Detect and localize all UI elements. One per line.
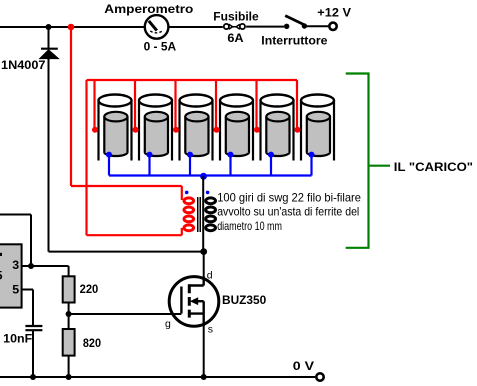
svg-text:Interruttore: Interruttore [261,33,327,47]
resistor R2 820 [63,329,75,356]
wire blue drop cell 3 [189,155,191,176]
svg-text:3: 3 [12,258,19,272]
cell 4 outer cylinder [220,95,253,161]
node blue cell 5 [268,152,274,158]
svg-text:820: 820 [83,336,101,350]
node red cell 4 [214,127,220,133]
wire red primary feed [71,27,182,200]
node source to rail [201,374,207,380]
transformer T1 core [198,197,200,232]
transformer T1 secondary loop 3 [206,216,216,222]
wire blue drop cell 1 [108,155,110,176]
wire R2 bottom to rail [68,356,70,377]
transformer T1 primary loop 2 [184,207,194,213]
cell 4 inner cylinder [226,112,249,156]
svg-text:1N4007: 1N4007 [1,58,46,72]
wire blue drop cell 2 [148,155,150,176]
svg-text:diametro 10 mm: diametro 10 mm [217,220,282,233]
node cap to rail [30,374,36,380]
svg-text:g: g [165,318,171,330]
switch S1 [284,16,307,29]
svg-text:BUZ350: BUZ350 [222,293,266,307]
node blue cell 1 [106,152,112,158]
wire secondary lead [202,176,204,252]
wire red primary return to cell bus [87,80,182,235]
transistor Q1 BUZ350 [169,277,219,327]
IC U1 555 body [0,244,22,307]
node red cell 2 [133,127,139,133]
node gate junction [66,311,72,317]
svg-text:0 - 5A: 0 - 5A [144,39,177,53]
node blue bus junction [200,173,207,180]
wire top rail left segment [0,26,145,28]
cell 5 outer cylinder [261,95,294,161]
transformer T1 secondary loop 4 [206,225,216,231]
wire cap bottom to rail [32,330,34,377]
wire pin3 net up and off left [0,215,31,267]
wire diode upper lead [48,27,50,48]
node red cell 6 [295,127,301,133]
svg-text:100 giri di swg 22 filo bi-fil: 100 giri di swg 22 filo bi-filare [217,191,361,204]
node diode tap on top rail [46,24,52,30]
wire blue drop cell 5 [270,155,272,176]
transformer T1 polarity dot secondary [206,191,210,195]
wire diode anode down [48,58,50,252]
svg-text:6A: 6A [227,31,243,45]
IC U1 label mark [0,253,2,256]
svg-text:d: d [207,270,213,282]
ammeter M1 [145,15,169,39]
node red cell 1 [92,127,98,133]
transformer T1 primary loop 1 [184,198,194,204]
cell 1 outer cylinder [99,95,132,161]
wire diode line to drain junction [49,251,204,253]
wire red drop cell 4 [215,80,217,130]
wire red drop cell 3 [174,80,176,130]
svg-text:IL "CARICO": IL "CARICO" [394,160,473,174]
wire R1 bottom to R2 [68,303,70,330]
transformer T1 primary loop 3 [184,216,194,222]
node blue cell 4 [228,152,234,158]
svg-text:+12 V: +12 V [317,6,351,20]
diode D1 1N4007 [40,49,59,59]
node blue cell 6 [309,152,315,158]
transformer T1 secondary loop 1 [206,198,216,204]
svg-text:5: 5 [0,268,3,282]
wire source to ground rail [203,325,205,377]
wire blue drop cell 4 [229,155,231,176]
node red tap on top rail [68,24,75,31]
transformer T1 secondary loop 2 [206,207,216,213]
wire gate [69,313,182,315]
svg-text:5: 5 [12,283,19,297]
svg-text:avvolto su un'asta di ferrite: avvolto su un'asta di ferrite del [217,206,359,219]
svg-text:0 V: 0 V [293,359,315,373]
transformer T1 primary loop 4 [184,225,194,231]
cell 1 inner cylinder [104,112,127,156]
cell 6 inner cylinder [307,112,330,156]
wire pin3 to R1 [31,266,69,276]
svg-text:220: 220 [80,282,99,296]
svg-text:10nF: 10nF [3,332,32,346]
cell 6 outer cylinder [301,95,334,161]
svg-text:Amperometro: Amperometro [104,2,193,16]
node blue cell 3 [187,152,193,158]
node pin3 junction [28,263,34,269]
wire switch to +12V terminal [307,25,329,27]
cell 3 inner cylinder [185,112,208,156]
node blue cell 2 [147,152,153,158]
node red cell 3 [173,127,179,133]
node drain junction [200,248,207,255]
cell 5 inner cylinder [266,112,289,156]
wire fuse to switch [246,26,284,28]
wire blue cell bottom bus [109,174,312,176]
terminal +12V [329,23,336,30]
transformer T1 polarity dot primary [185,191,189,195]
wire red drop cell 2 [134,80,136,130]
resistor R1 220 [63,276,75,302]
node red cell 5 [254,127,260,133]
wire drain down to MOSFET [203,252,205,279]
wire red cell top bus [87,79,298,81]
bracket tick [369,165,391,167]
node R2 to rail [66,374,72,380]
cell 3 outer cylinder [180,95,213,161]
bracket IL CARICO [346,74,369,248]
svg-text:s: s [208,323,213,335]
wire ground rail [0,376,315,378]
fuse F1 [224,24,245,29]
cell 2 outer cylinder [139,95,172,161]
svg-text:Fusibile: Fusibile [213,10,258,24]
wire red drop cell 1 [93,80,95,130]
wire red drop cell 5 [255,80,257,130]
cell 2 inner cylinder [145,112,168,156]
terminal 0V [316,373,323,380]
wire pin5 stub to cap [22,290,34,327]
capacitor C1 10nF [25,326,42,330]
wire blue drop cell 6 [310,155,312,176]
wire red drop cell 6 [296,80,298,130]
wire ammeter to fuse [168,26,222,28]
